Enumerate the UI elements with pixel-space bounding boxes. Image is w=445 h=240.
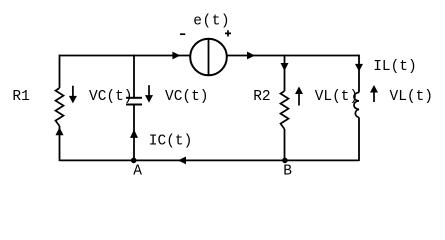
wire R2 branch lower <box>284 129 286 161</box>
arrow up beside inductor <box>370 85 378 93</box>
svg-text:e(t): e(t) <box>193 14 230 30</box>
capacitor C bottom plate <box>126 104 142 106</box>
resistor R2 <box>281 91 289 129</box>
svg-text:IL(t): IL(t) <box>373 59 417 75</box>
svg-text:VC(t): VC(t) <box>165 89 209 105</box>
minus sign of source <box>180 33 185 35</box>
svg-text:VC(t): VC(t) <box>89 89 133 105</box>
arrow down beside R1 <box>72 86 74 97</box>
arrowhead right on top wire before source <box>172 52 180 60</box>
svg-text:IC(t): IC(t) <box>149 134 193 150</box>
wire inductor branch upper <box>358 55 360 93</box>
wire inductor branch lower <box>358 117 360 161</box>
svg-text:VL(t): VL(t) <box>390 89 434 105</box>
wire bottom <box>60 159 360 161</box>
plus sign of source <box>225 30 231 36</box>
arrowhead down on inductor branch <box>355 64 363 72</box>
wire capacitor branch lower <box>133 105 135 162</box>
wire left branch upper <box>59 55 61 88</box>
wire left branch lower <box>59 126 61 161</box>
svg-text:VL(t): VL(t) <box>315 89 359 105</box>
wire top left segment <box>60 55 190 57</box>
arrowhead up on capacitor branch <box>130 129 138 138</box>
arrowhead down on R2 branch <box>281 63 289 71</box>
svg-text:A: A <box>133 164 142 180</box>
svg-text:B: B <box>283 164 292 180</box>
arrowhead up on R1 branch <box>56 127 64 135</box>
capacitor C top plate <box>126 97 142 99</box>
svg-text:R2: R2 <box>253 89 270 105</box>
arrowhead left on bottom wire <box>178 157 186 165</box>
arrowhead right on top wire after source <box>247 52 255 60</box>
wire capacitor branch upper <box>133 55 135 97</box>
resistor R1 <box>56 88 64 126</box>
svg-text:R1: R1 <box>12 89 29 105</box>
wire top right segment <box>228 55 360 57</box>
wire R2 branch upper <box>284 55 286 91</box>
voltage source U1 e(t) circle <box>190 39 227 76</box>
arrow up beside R2 <box>295 87 303 95</box>
voltage source vertical bar <box>208 39 210 76</box>
inductor L coil <box>354 93 359 118</box>
arrow down beside capacitor <box>148 85 150 96</box>
node B junction dot <box>282 158 288 164</box>
node A junction dot <box>131 158 137 164</box>
